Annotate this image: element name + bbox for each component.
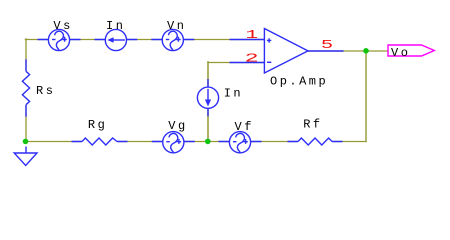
op-amp plus mark (267, 38, 271, 43)
current source In (top) (95, 29, 138, 50)
svg-text:Vo: Vo (391, 46, 410, 60)
wire op-amp output (node 5) to Vo port (308, 50, 388, 52)
voltage source Vf (219, 132, 262, 153)
wire top net (node 1) from left corner to op-amp noninverting input (25, 39, 264, 41)
op-amp input pin stubs (nodes 1,2) (230, 40, 265, 63)
svg-text:Vs: Vs (53, 19, 72, 33)
junction node bottom-left (23, 139, 29, 145)
junction node middle bottom (205, 139, 211, 145)
wire left vertical net (25, 39, 27, 142)
svg-text:Rg: Rg (88, 118, 107, 132)
wire right vertical net (365, 51, 367, 142)
op-amp U1 (230, 29, 344, 74)
wire node 2 horizontal to op-amp inverting input (208, 62, 264, 64)
resistor Rs (20, 59, 34, 117)
svg-text:Rs: Rs (36, 84, 55, 98)
voltage source Vg (152, 132, 195, 153)
svg-text:5: 5 (321, 39, 337, 53)
svg-text:Vg: Vg (168, 119, 187, 133)
node 2 label (245, 52, 264, 66)
svg-text:Vn: Vn (167, 19, 186, 33)
resistor Rg (72, 135, 128, 148)
wire bottom net (25, 141, 366, 143)
op-amp minus mark (267, 61, 271, 63)
current source In (middle) (197, 79, 218, 116)
ground (14, 147, 37, 166)
voltage source Vn (151, 29, 194, 50)
svg-text:Op.Amp: Op.Amp (270, 75, 328, 89)
node 5 label (321, 39, 337, 53)
svg-text:In: In (106, 19, 125, 33)
svg-text:In: In (224, 87, 243, 101)
svg-text:2: 2 (245, 52, 264, 66)
op-amp output pin stub (308, 50, 344, 52)
svg-text:Rf: Rf (303, 118, 322, 132)
svg-text:1: 1 (246, 29, 263, 42)
output port Vo (388, 45, 434, 60)
junction node output (node 5) (363, 48, 369, 54)
op-amp triangle body (264, 29, 308, 74)
svg-text:Vf: Vf (235, 120, 254, 134)
node 1 label (246, 29, 263, 42)
voltage source Vs (38, 29, 81, 50)
wire middle vertical net (207, 62, 209, 142)
resistor Rf (288, 135, 343, 148)
